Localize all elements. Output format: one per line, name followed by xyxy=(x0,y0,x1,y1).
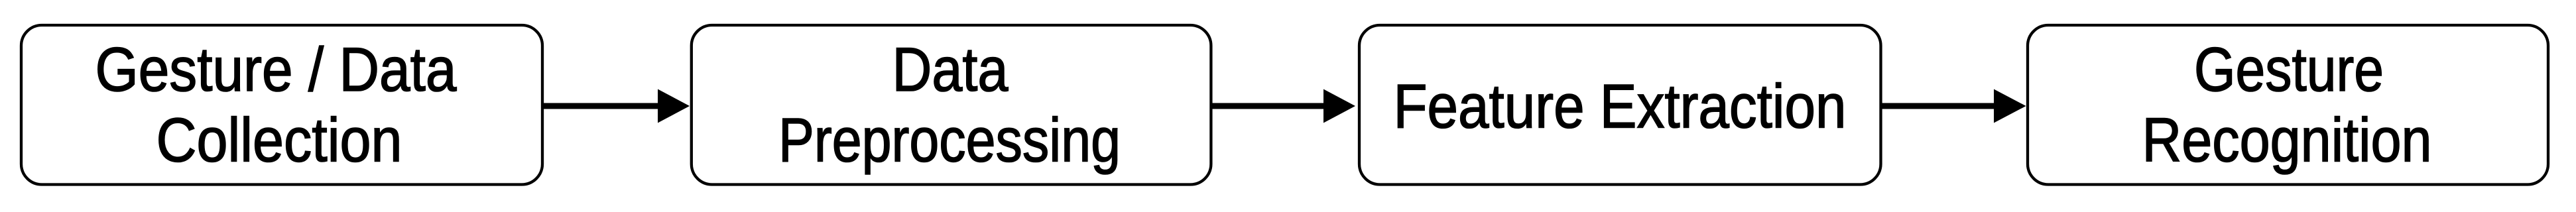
box: Data Preprocessing xyxy=(692,25,1211,185)
arrow 3 shaft xyxy=(1881,103,1996,109)
svg-text:Recognition: Recognition xyxy=(2142,105,2432,175)
arrow 2 head xyxy=(1323,89,1355,123)
box: Feature Extraction xyxy=(1359,25,1881,185)
arrow 1 head xyxy=(658,89,690,123)
arrow 2 shaft xyxy=(1211,103,1325,109)
arrow 3 head xyxy=(1994,89,2026,123)
svg-text:Gesture: Gesture xyxy=(2194,34,2384,104)
arrow 1 shaft xyxy=(542,103,659,109)
svg-text:Collection: Collection xyxy=(156,105,402,175)
svg-text:Preprocessing: Preprocessing xyxy=(778,105,1121,175)
box: Gesture Recognition xyxy=(2028,25,2548,185)
box: Gesture / Data Collection xyxy=(21,25,542,185)
svg-text:Feature Extraction: Feature Extraction xyxy=(1394,71,1847,140)
svg-text:Gesture / Data: Gesture / Data xyxy=(95,34,458,104)
svg-text:Data: Data xyxy=(892,34,1009,104)
